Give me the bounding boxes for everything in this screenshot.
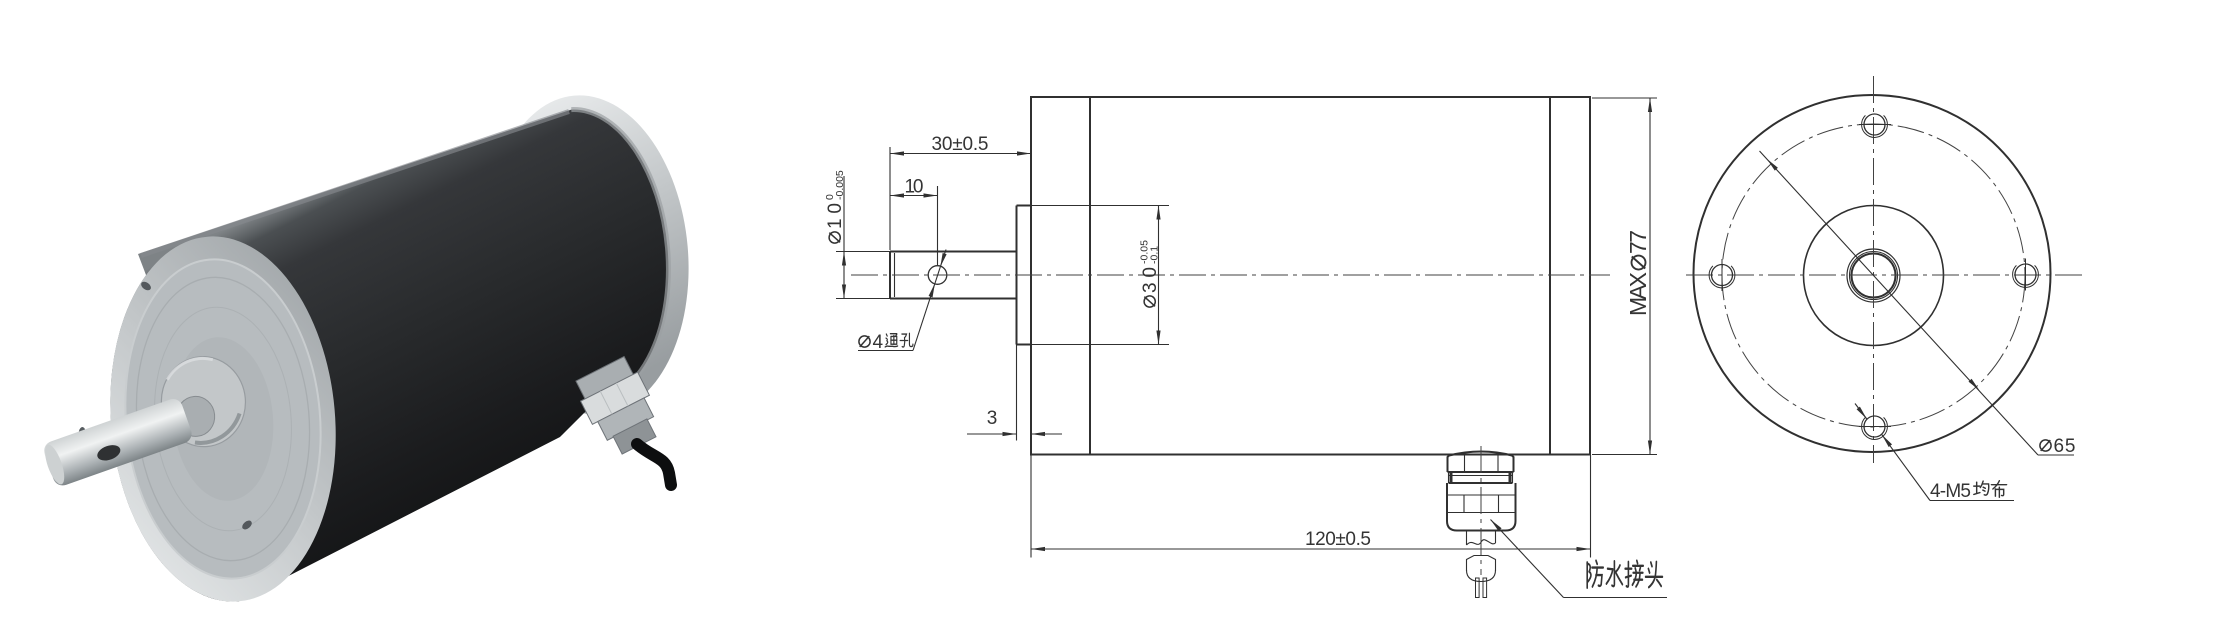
svg-text:77: 77 [1625,230,1651,254]
svg-text:-0.1: -0.1 [1149,246,1161,264]
svg-text:65: 65 [2054,436,2076,457]
svg-text:3: 3 [987,408,998,429]
svg-text:MAX: MAX [1625,272,1651,316]
svg-text:4: 4 [873,332,884,353]
svg-text:120±0.5: 120±0.5 [1305,529,1371,550]
svg-text:4-M5: 4-M5 [1930,481,1971,502]
svg-text:30±0.5: 30±0.5 [932,134,989,155]
svg-text:30: 30 [1140,267,1161,293]
svg-text:10: 10 [825,203,846,229]
svg-text:10: 10 [905,177,924,198]
svg-text:-0.005: -0.005 [834,170,846,200]
